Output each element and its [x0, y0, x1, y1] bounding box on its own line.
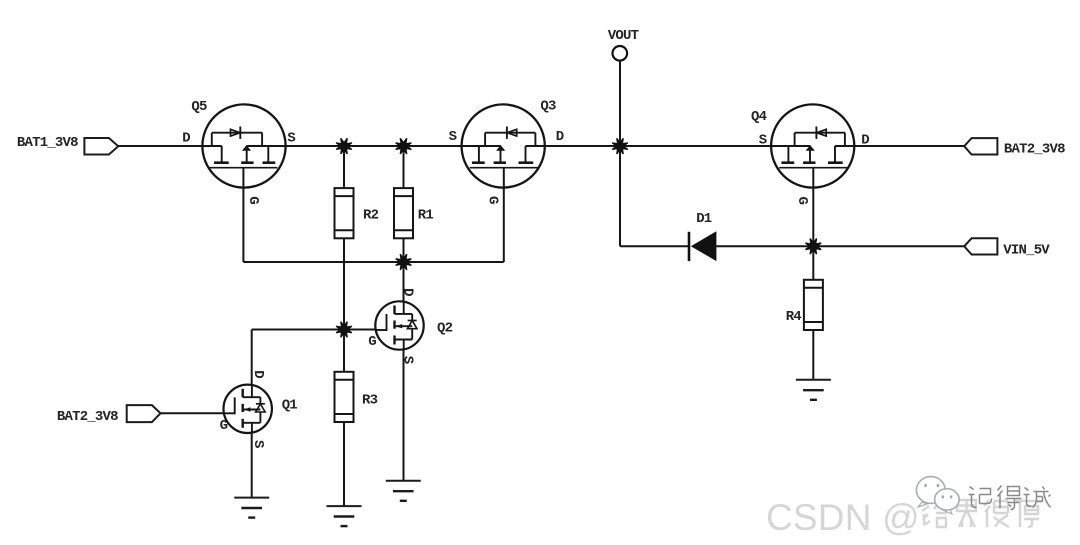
svg-text:D: D	[861, 132, 869, 148]
svg-text:S: S	[287, 130, 295, 146]
svg-text:VOUT: VOUT	[608, 28, 639, 44]
svg-text:Q1: Q1	[282, 397, 298, 413]
svg-text:S: S	[400, 356, 416, 364]
svg-text:G: G	[485, 196, 501, 204]
svg-text:S: S	[449, 129, 457, 145]
svg-text:R4: R4	[786, 309, 802, 325]
svg-text:G: G	[220, 418, 228, 434]
svg-text:Q2: Q2	[437, 320, 453, 336]
svg-text:D: D	[182, 130, 190, 146]
svg-text:D1: D1	[696, 211, 712, 227]
svg-text:R3: R3	[362, 392, 378, 408]
svg-text:G: G	[368, 334, 376, 350]
svg-text:G: G	[245, 196, 261, 204]
svg-text:S: S	[759, 132, 767, 148]
svg-text:D: D	[556, 129, 564, 145]
svg-text:VIN_5V: VIN_5V	[1003, 243, 1050, 259]
svg-text:R1: R1	[418, 208, 434, 224]
svg-text:S: S	[250, 440, 266, 448]
svg-text:BAT1_3V8: BAT1_3V8	[17, 135, 78, 151]
svg-text:G: G	[794, 197, 810, 205]
svg-text:Q4: Q4	[751, 109, 767, 125]
svg-text:BAT2_3V8: BAT2_3V8	[57, 409, 118, 425]
svg-text:D: D	[400, 288, 416, 296]
svg-text:Q3: Q3	[540, 99, 556, 115]
svg-text:CSDN @: CSDN @	[766, 497, 920, 538]
svg-text:D: D	[250, 370, 266, 378]
svg-text:Q5: Q5	[191, 99, 207, 115]
svg-text:BAT2_3V8: BAT2_3V8	[1004, 141, 1065, 157]
svg-text:R2: R2	[363, 208, 379, 224]
